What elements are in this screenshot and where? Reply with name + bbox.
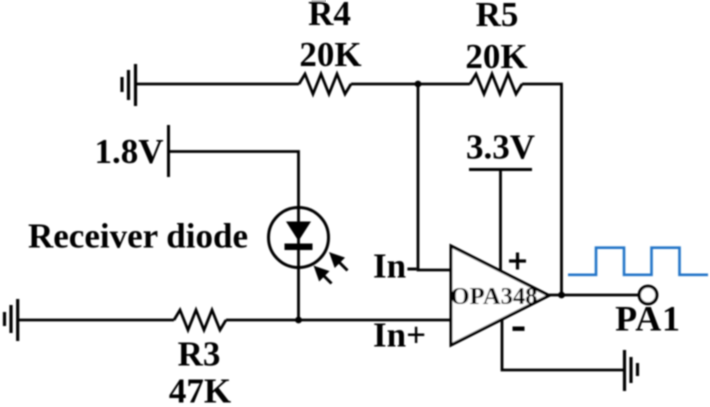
svg-text:47K: 47K [169,372,231,407]
svg-text:R5: R5 [476,0,519,34]
svg-text:R4: R4 [308,0,351,33]
svg-text:PA1: PA1 [615,299,681,339]
svg-text:R3: R3 [178,335,221,374]
svg-text:1.8V: 1.8V [94,132,163,171]
svg-text:Receiver diode: Receiver diode [28,217,248,256]
svg-text:OPA348: OPA348 [451,283,538,310]
svg-text:3.3V: 3.3V [466,128,535,167]
svg-text:In-: In- [373,247,418,286]
svg-text:In+: In+ [373,316,426,355]
svg-text:20K: 20K [465,37,527,76]
svg-text:20K: 20K [299,35,361,74]
